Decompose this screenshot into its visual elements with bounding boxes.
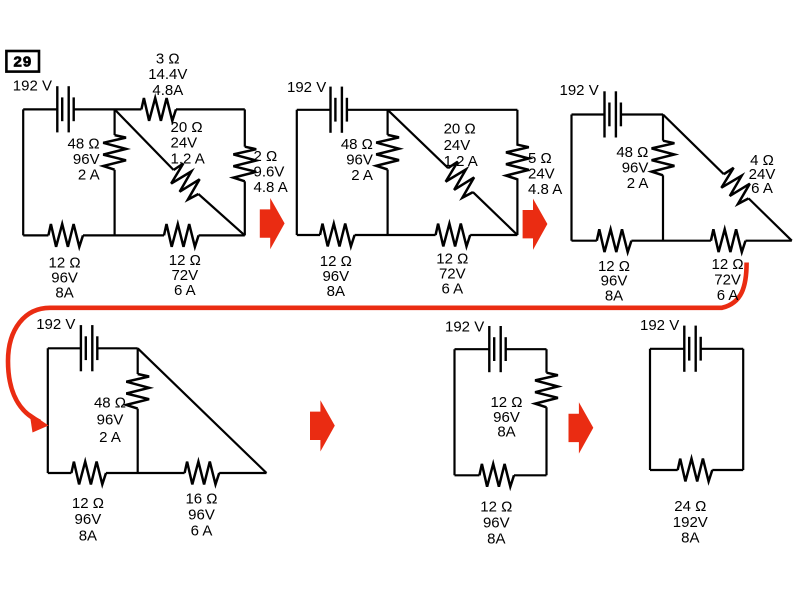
- svg-text:16 Ω: 16 Ω: [185, 490, 217, 507]
- svg-text:4.8 A: 4.8 A: [254, 179, 288, 196]
- svg-text:29: 29: [14, 54, 33, 71]
- svg-text:4.8 A: 4.8 A: [528, 181, 562, 198]
- svg-text:192 V: 192 V: [13, 77, 52, 94]
- svg-text:8A: 8A: [55, 284, 73, 301]
- svg-text:5 Ω: 5 Ω: [528, 150, 552, 167]
- svg-text:24 Ω: 24 Ω: [674, 498, 706, 515]
- svg-text:4.8A: 4.8A: [152, 82, 183, 99]
- svg-text:14.4V: 14.4V: [148, 66, 187, 83]
- svg-text:192 V: 192 V: [640, 317, 679, 334]
- svg-text:48 Ω: 48 Ω: [68, 135, 100, 152]
- svg-text:96V: 96V: [73, 151, 100, 168]
- svg-text:192 V: 192 V: [445, 318, 484, 335]
- svg-text:96V: 96V: [97, 412, 124, 429]
- svg-text:3 Ω: 3 Ω: [156, 50, 180, 67]
- svg-text:96V: 96V: [188, 506, 215, 523]
- svg-text:48 Ω: 48 Ω: [94, 395, 126, 412]
- svg-text:2 Ω: 2 Ω: [254, 148, 278, 165]
- svg-text:48 Ω: 48 Ω: [341, 136, 373, 153]
- svg-text:192 V: 192 V: [560, 82, 599, 99]
- svg-text:12 Ω: 12 Ω: [72, 495, 104, 512]
- svg-text:8A: 8A: [605, 287, 623, 304]
- svg-text:48 Ω: 48 Ω: [616, 144, 648, 161]
- svg-text:9.6V: 9.6V: [254, 164, 285, 181]
- svg-text:24V: 24V: [444, 137, 471, 154]
- svg-text:96V: 96V: [483, 514, 510, 531]
- svg-text:8A: 8A: [497, 424, 515, 441]
- svg-text:192 V: 192 V: [287, 79, 326, 96]
- svg-text:2 A: 2 A: [78, 166, 100, 183]
- svg-text:8A: 8A: [79, 528, 97, 545]
- svg-text:8A: 8A: [681, 530, 699, 547]
- svg-text:12 Ω: 12 Ω: [480, 498, 512, 515]
- svg-text:6 A: 6 A: [441, 280, 463, 297]
- svg-text:24V: 24V: [528, 166, 555, 183]
- svg-text:20 Ω: 20 Ω: [171, 119, 203, 136]
- svg-text:2 A: 2 A: [351, 167, 373, 184]
- svg-text:8A: 8A: [487, 531, 505, 548]
- svg-text:2 A: 2 A: [99, 429, 121, 446]
- svg-text:24V: 24V: [171, 135, 198, 152]
- svg-text:1.2 A: 1.2 A: [444, 153, 478, 170]
- svg-text:96V: 96V: [346, 152, 373, 169]
- svg-text:2 A: 2 A: [627, 175, 649, 192]
- svg-text:192 V: 192 V: [36, 316, 75, 333]
- svg-text:8A: 8A: [327, 283, 345, 300]
- svg-text:96V: 96V: [622, 160, 649, 177]
- svg-text:6 A: 6 A: [191, 522, 213, 539]
- svg-text:20 Ω: 20 Ω: [444, 120, 476, 137]
- svg-text:192V: 192V: [673, 514, 708, 531]
- svg-text:6 A: 6 A: [717, 287, 739, 304]
- svg-text:96V: 96V: [75, 511, 102, 528]
- svg-text:6 A: 6 A: [174, 282, 196, 299]
- svg-text:1.2 A: 1.2 A: [171, 150, 205, 167]
- svg-text:6 A: 6 A: [751, 180, 773, 197]
